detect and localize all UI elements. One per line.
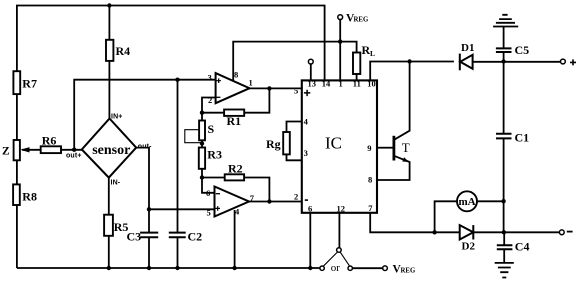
svg-text:C4: C4: [515, 240, 530, 254]
svg-text:R6: R6: [42, 134, 57, 148]
svg-text:C5: C5: [515, 43, 530, 57]
svg-text:6: 6: [308, 204, 312, 214]
svg-text:5: 5: [294, 86, 298, 96]
svg-text:R8: R8: [22, 190, 37, 204]
svg-text:3: 3: [208, 72, 212, 82]
svg-text:mA: mA: [458, 196, 475, 208]
svg-text:9: 9: [367, 143, 371, 153]
svg-text:4: 4: [304, 117, 309, 127]
svg-text:14: 14: [322, 79, 331, 89]
svg-text:C2: C2: [188, 230, 203, 244]
svg-text:sensor: sensor: [92, 143, 130, 158]
svg-text:Rg: Rg: [266, 137, 281, 151]
svg-text:D1: D1: [461, 42, 474, 54]
svg-text:Z: Z: [2, 146, 10, 158]
svg-text:C1: C1: [515, 131, 530, 145]
svg-text:D2: D2: [462, 241, 476, 253]
svg-text:10: 10: [367, 79, 376, 89]
svg-text:REG: REG: [354, 16, 369, 23]
svg-text:IN-: IN-: [111, 179, 121, 186]
svg-text:L: L: [370, 49, 375, 58]
svg-text:R5: R5: [114, 220, 129, 234]
svg-text:IC: IC: [325, 134, 342, 153]
svg-text:R3: R3: [207, 148, 222, 162]
svg-text:1: 1: [249, 78, 253, 88]
svg-text:3: 3: [304, 148, 308, 158]
svg-text:R4: R4: [116, 44, 131, 58]
svg-text:2: 2: [208, 95, 212, 105]
svg-text:out+: out+: [66, 153, 82, 160]
svg-text:8: 8: [368, 174, 372, 184]
svg-text:6: 6: [206, 188, 210, 198]
svg-text:or: or: [331, 262, 341, 274]
svg-text:12: 12: [337, 203, 346, 213]
svg-text:REG: REG: [401, 268, 416, 275]
svg-text:2: 2: [294, 192, 298, 202]
svg-text:R1: R1: [227, 114, 242, 128]
svg-text:T: T: [402, 140, 410, 155]
svg-text:S: S: [208, 122, 215, 136]
svg-text:13: 13: [308, 79, 317, 89]
svg-text:5: 5: [207, 208, 211, 218]
svg-text:R2: R2: [228, 161, 243, 175]
svg-text:C3: C3: [127, 230, 142, 244]
svg-text:IN+: IN+: [111, 114, 123, 121]
svg-text:8: 8: [234, 69, 238, 79]
svg-text:7: 7: [368, 203, 373, 213]
svg-text:R7: R7: [22, 77, 37, 91]
